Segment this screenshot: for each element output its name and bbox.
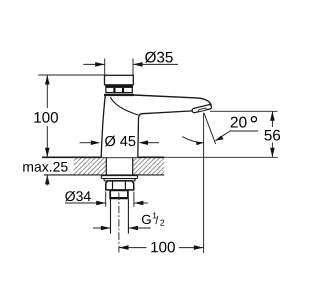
dimension 100 down arrowhead bbox=[45, 148, 50, 158]
dimension 100 bottom right arrowhead bbox=[194, 245, 204, 250]
deck bottom line bbox=[44, 174, 164, 176]
dimension Ø35 left arrowhead bbox=[95, 62, 105, 67]
label Ø35 bbox=[145, 52, 173, 63]
collar washer under nut bbox=[104, 94, 134, 96]
centerline of tap axis bbox=[118, 193, 120, 253]
dimension Ø35 left tail bbox=[83, 63, 104, 65]
deck top extension to 56 dimension bbox=[164, 156, 278, 158]
hex nut facet right bbox=[122, 88, 124, 92]
label 20 degrees bbox=[231, 117, 247, 128]
dimension max.25 lower arrowhead bbox=[45, 175, 50, 185]
dimension 56 vertical line upper bbox=[271, 111, 273, 127]
dimension G1/2 right arrowhead bbox=[129, 226, 139, 231]
dimension Ø34 right tail bbox=[134, 202, 148, 204]
spout top edge bbox=[134, 95, 212, 105]
mounting nut facet left bbox=[112, 181, 114, 190]
mounting hex nut bbox=[106, 181, 134, 190]
hex nut top band bbox=[105, 86, 132, 88]
outlet slot detail bbox=[198, 108, 206, 112]
dimension Ø35 right witness line bbox=[132, 59, 134, 77]
washer band upper bbox=[101, 176, 137, 179]
dimension G1/2 left arrowhead bbox=[101, 226, 111, 231]
dimension G1/2 left tail bbox=[93, 227, 110, 229]
dimension 100 up arrowhead bbox=[45, 75, 50, 85]
dimension Ø34 right arrowhead bbox=[134, 201, 144, 206]
dimension Ø35 left witness line bbox=[104, 59, 106, 77]
dimension Ø34 left witness line bbox=[105, 192, 107, 207]
label G 1/2 bbox=[142, 215, 151, 224]
tailpiece tube right wall bbox=[127, 199, 129, 234]
deck hatch left bbox=[74, 157, 107, 175]
stream vertical line from outlet bbox=[203, 113, 205, 253]
label max.25 bbox=[23, 162, 67, 172]
faucet body outline bbox=[101, 95, 211, 158]
20 degree leader line bbox=[215, 131, 258, 141]
spout underside edge bbox=[138, 111, 193, 157]
shank through deck left edge bbox=[105, 157, 107, 175]
dimension 56 top extension line bbox=[210, 110, 278, 112]
spout outlet pill bbox=[192, 104, 212, 113]
dimension Ø34 left tail under text bbox=[65, 202, 106, 204]
dimension max.25 lower tail bbox=[46, 175, 48, 186]
body left wall bbox=[101, 96, 105, 157]
dimension Ø34 left arrowhead bbox=[96, 201, 106, 206]
deck hatch right bbox=[133, 157, 164, 175]
label 100 left bbox=[34, 112, 58, 123]
dimension 100 bottom line right segment bbox=[179, 247, 203, 249]
dimension Ø34 right witness line bbox=[133, 192, 135, 207]
dimension Ø35 right arrowhead bbox=[133, 62, 143, 67]
shank through deck right edge bbox=[132, 157, 134, 175]
label 56 bbox=[264, 130, 280, 141]
dimension Ø35 leader line under text bbox=[133, 63, 178, 65]
20 degree leader arrowhead bbox=[215, 136, 223, 141]
cap (head) bbox=[105, 75, 134, 85]
angle arc bbox=[182, 137, 203, 143]
washer band lower bbox=[104, 179, 135, 181]
dimension 100 vertical line upper bbox=[46, 75, 48, 108]
angle arc arrowhead bbox=[196, 141, 203, 145]
dimension 100 vertical line lower bbox=[46, 126, 48, 157]
dimension Ø45 right arrowhead bbox=[139, 140, 149, 145]
dimension 56 up arrowhead bbox=[270, 111, 275, 121]
dimension G1/2 right tail bbox=[129, 227, 151, 229]
dimension 100 top extension line bbox=[38, 74, 104, 76]
tailpiece tube left wall bbox=[110, 199, 112, 234]
tailpiece hub bbox=[110, 190, 128, 198]
dimension 100 bottom line left segment bbox=[119, 247, 147, 249]
hex nut below cap bbox=[106, 86, 132, 93]
stream 20 degree slant line bbox=[204, 113, 216, 144]
dimension 56 vertical line lower bbox=[271, 143, 273, 158]
dimension 100 bottom left arrowhead bbox=[119, 245, 129, 250]
mounting nut facet right bbox=[124, 181, 126, 190]
label Ø34 bbox=[65, 191, 91, 201]
label 100 bottom bbox=[151, 242, 175, 253]
tailpiece hub bottom heavy edge bbox=[110, 197, 128, 199]
hex nut facet left bbox=[113, 88, 115, 92]
dimension Ø45 right tail bbox=[148, 142, 159, 144]
dimension 56 down arrowhead bbox=[270, 148, 275, 158]
dimension Ø45 left arrowhead bbox=[91, 140, 101, 145]
deck top line bbox=[42, 156, 164, 158]
body blend diagonal line bbox=[110, 97, 138, 115]
label Ø45 bbox=[105, 136, 135, 147]
dimension Ø45 left tail bbox=[80, 142, 91, 144]
